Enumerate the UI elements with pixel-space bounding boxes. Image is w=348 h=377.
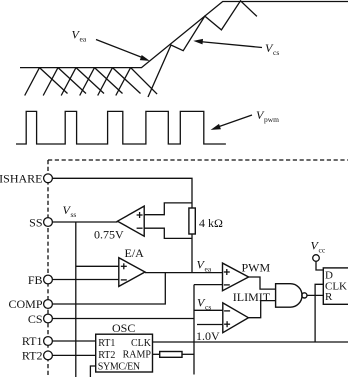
svg-text:SS: SS <box>29 215 42 229</box>
op-amp PWM comparator <box>223 263 249 291</box>
wire sawtooth fall edges (flat region) <box>40 68 158 95</box>
svg-text:PWM: PWM <box>242 260 271 274</box>
wire CS to comparator node <box>52 318 194 320</box>
wire OSC RAMP output to resistor <box>153 353 160 355</box>
wire SS branch to E/A non-inverting input <box>76 265 119 267</box>
node Vpwm label <box>211 108 280 130</box>
resistor ramp summing <box>160 352 182 358</box>
svg-text:4 kΩ: 4 kΩ <box>199 216 223 230</box>
pin COMP <box>44 300 53 309</box>
gate NAND <box>276 284 302 308</box>
wire sawtooth on ramp <box>148 1 257 97</box>
wire SYMC/EN stub down <box>90 366 95 377</box>
svg-text:E/A: E/A <box>125 246 145 260</box>
pin SS <box>44 218 53 227</box>
wire NAND output to flip-flop R <box>307 294 323 296</box>
svg-text:RT1: RT1 <box>22 334 43 348</box>
wire ILIMIT inverting input to Vcs node <box>194 309 223 311</box>
op-amp SS buffer (0.75V) <box>118 206 145 236</box>
op-amp ILIMIT comparator <box>223 303 249 333</box>
resistor 4 kOhm <box>189 208 195 234</box>
flip-flop D/CLK/R <box>323 268 348 304</box>
pin CS <box>44 314 53 323</box>
wire OSC CLK output line <box>153 341 348 343</box>
wire COMP to E/A output <box>52 273 165 304</box>
pin Vcc terminal <box>313 255 320 262</box>
svg-text:ILIMIT: ILIMIT <box>233 290 271 304</box>
svg-text:ea: ea <box>205 264 212 273</box>
wire FB to E/A inverting input <box>52 279 118 281</box>
svg-text:ea: ea <box>80 35 87 44</box>
block OSC <box>96 334 153 372</box>
wire resistor to Vcs node <box>182 353 194 355</box>
pin ISHARE <box>44 174 53 183</box>
wire resistor bottom to Vea node <box>191 234 193 273</box>
svg-text:0.75V: 0.75V <box>94 227 124 241</box>
wire Vcs node vertical <box>193 285 195 375</box>
wire dashed IC left boundary <box>47 160 49 377</box>
svg-text:R: R <box>325 291 333 303</box>
svg-text:SYMC/EN: SYMC/EN <box>98 361 140 372</box>
wire RT2 to OSC <box>52 354 95 356</box>
svg-text:ISHARE: ISHARE <box>0 172 43 186</box>
node Vea label <box>72 28 150 61</box>
wire sawtooth rise edges (flat region) <box>25 68 131 96</box>
svg-text:RT2: RT2 <box>22 349 43 363</box>
wire PWM inverting input to Vcs node <box>194 284 223 286</box>
wire buffer - input to below resistor <box>144 228 192 238</box>
node Vcs label <box>193 39 279 57</box>
node Vpwm waveform <box>16 111 226 144</box>
wire CLK riser from OSC clock line to flip-flop CLK <box>315 284 323 342</box>
svg-text:FB: FB <box>28 273 43 287</box>
wire PWM output to NAND <box>249 277 276 289</box>
wire SS branch down (to E/A + and below) <box>75 222 77 377</box>
pin FB <box>44 275 53 284</box>
svg-text:cs: cs <box>273 48 279 57</box>
svg-text:RAMP: RAMP <box>123 350 152 361</box>
svg-text:OSC: OSC <box>112 321 135 335</box>
svg-text:COMP: COMP <box>8 297 42 311</box>
svg-text:1.0V: 1.0V <box>196 329 220 343</box>
wire 1.0V reference to ILIMIT + input <box>197 324 223 326</box>
wire dashed IC top boundary <box>48 159 348 161</box>
wire buffer + input to above resistor <box>144 203 192 215</box>
svg-text:ss: ss <box>71 210 77 219</box>
wire ILIMIT output to NAND <box>248 301 275 318</box>
pin RT2 <box>44 351 53 360</box>
wire Vcc to flip-flop D <box>316 261 323 270</box>
wire SS to buffer apex <box>52 221 117 223</box>
wire E/A output (Vea) to PWM + input <box>145 272 223 274</box>
svg-text:pwm: pwm <box>264 115 279 124</box>
node Vea envelope (flat-ramp-flat) <box>20 2 348 68</box>
svg-text:RT1: RT1 <box>98 338 115 349</box>
wire RT1 to OSC <box>52 340 95 342</box>
wire ISHARE to 4k resistor top <box>52 178 192 208</box>
op-amp E/A <box>119 258 145 287</box>
svg-text:CLK: CLK <box>131 338 152 349</box>
svg-text:cc: cc <box>319 246 326 255</box>
svg-text:RT2: RT2 <box>98 350 115 361</box>
svg-text:CS: CS <box>28 312 43 326</box>
pin RT1 <box>44 337 53 346</box>
